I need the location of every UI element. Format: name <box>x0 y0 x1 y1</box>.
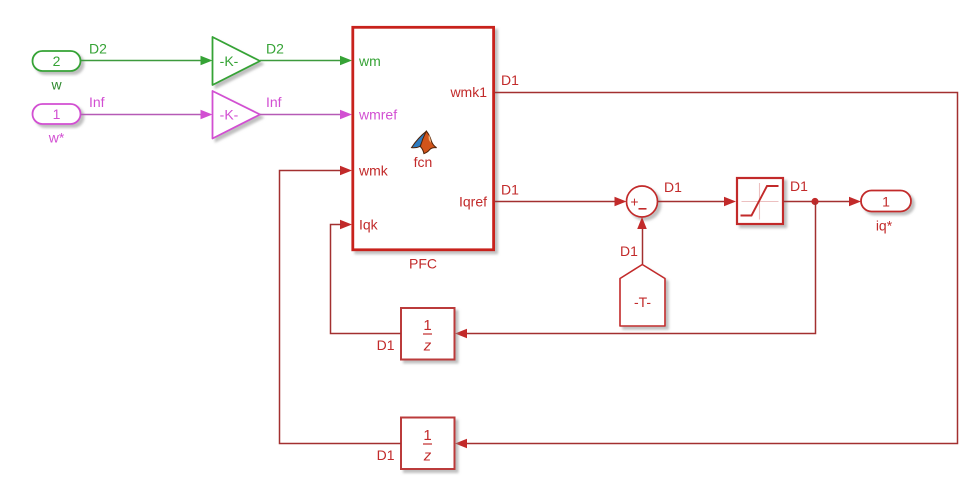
svg-text:w*: w* <box>48 130 65 146</box>
svg-text:wmk1: wmk1 <box>449 84 487 100</box>
wire D2 (gain G1 to PFC wm) <box>260 56 352 66</box>
unit delay UD2 (1/z) <box>401 418 455 470</box>
From tag -T- <box>620 265 665 327</box>
gain G1 (-K-) <box>213 37 261 85</box>
svg-text:-K-: -K- <box>220 107 239 123</box>
wire D1 (PFC wmk1 to unit delay UD2, around right side) <box>455 93 958 449</box>
wire D2 (inport 2 to gain G1) <box>81 56 213 66</box>
wire Inf (gain G2 to PFC wmref) <box>260 110 352 120</box>
sum sign - <box>639 208 647 210</box>
svg-text:PFC: PFC <box>409 256 437 272</box>
svg-text:D1: D1 <box>664 179 682 195</box>
saturation axes <box>742 183 779 220</box>
svg-text:wmref: wmref <box>358 107 397 123</box>
inport 2 (w) <box>33 51 81 71</box>
unit delay UD1 (1/z) <box>401 308 455 360</box>
outport 1 (iq*) <box>861 191 911 212</box>
svg-text:iq*: iq* <box>876 218 893 234</box>
sum block S1 <box>627 186 658 217</box>
svg-text:wm: wm <box>358 53 381 69</box>
svg-text:Iqk: Iqk <box>359 217 379 233</box>
svg-text:Inf: Inf <box>89 94 105 110</box>
svg-text:z: z <box>423 338 432 355</box>
UD1 1/z glyph <box>423 317 432 355</box>
svg-text:1: 1 <box>423 427 431 444</box>
svg-text:D1: D1 <box>377 447 395 463</box>
svg-text:D1: D1 <box>620 243 638 259</box>
svg-text:D2: D2 <box>89 41 107 57</box>
wire D1 (UD2 output to PFC wmk) <box>280 171 402 444</box>
svg-text:w: w <box>50 77 62 93</box>
wire D1 (UD1 output to PFC Iqk) <box>331 225 402 334</box>
svg-text:1: 1 <box>882 194 890 210</box>
wire Inf (inport 1 to gain G2) <box>81 110 213 120</box>
svg-text:D1: D1 <box>790 178 808 194</box>
svg-text:D1: D1 <box>501 182 519 198</box>
svg-text:Inf: Inf <box>266 94 282 110</box>
svg-text:z: z <box>423 448 432 465</box>
svg-text:D1: D1 <box>377 337 395 353</box>
input arrow wmk <box>340 166 352 176</box>
svg-text:-T-: -T- <box>634 294 651 310</box>
wire D1 (junction to unit delay UD1) <box>467 202 816 334</box>
input arrow Iqk <box>340 220 352 230</box>
svg-text:+: + <box>630 194 638 210</box>
svg-text:2: 2 <box>53 53 61 69</box>
svg-text:1: 1 <box>423 317 431 334</box>
svg-text:D1: D1 <box>501 72 519 88</box>
wire D1 (sum S1 to saturation SAT) <box>658 197 737 207</box>
UD2 1/z glyph <box>423 427 432 465</box>
svg-text:fcn: fcn <box>414 154 433 170</box>
svg-text:-K-: -K- <box>220 53 239 69</box>
wire D1 (-T- tag to sum S1 bottom) <box>637 217 647 264</box>
wire D1 (PFC Iqref to sum S1) <box>494 197 627 207</box>
junction dot <box>811 198 818 205</box>
MATLAB membrane logo <box>412 131 437 154</box>
arrow into UD1 <box>455 329 467 339</box>
wire D1 (saturation SAT to outport 1) <box>783 197 861 207</box>
saturation block SAT <box>737 178 783 224</box>
gain G2 (-K-) <box>213 91 261 139</box>
inport 1 (w*) <box>33 104 81 124</box>
svg-text:1: 1 <box>53 106 61 122</box>
svg-text:Iqref: Iqref <box>459 194 487 210</box>
svg-text:D2: D2 <box>266 41 284 57</box>
MATLAB Function block PFC <box>353 27 494 250</box>
saturation curve <box>741 186 779 216</box>
svg-text:wmk: wmk <box>358 163 389 179</box>
